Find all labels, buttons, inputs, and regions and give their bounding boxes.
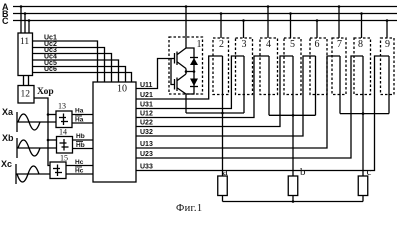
wire tap C to block 11: [28, 19, 31, 33]
svg-text:U31: U31: [140, 102, 153, 109]
wire switch 9 output lead: [388, 56, 390, 114]
wire load c bottom stub: [362, 196, 364, 202]
wire emitter-collector mid node: [185, 69, 188, 75]
wire switch 6 output lead: [315, 56, 317, 115]
wire Hb: [73, 133, 94, 140]
bus C (phase C input line): [2, 16, 397, 26]
wire tap A to switch 7: [338, 5, 341, 38]
source Xa (sine input a): [2, 107, 56, 132]
wire diode branch: [186, 48, 195, 94]
switch cell 1 dashed box: [169, 37, 203, 94]
wire Uc2: [33, 41, 105, 82]
load a resistor: [218, 166, 228, 196]
wire Uc4: [33, 54, 119, 83]
svg-text:6: 6: [315, 39, 320, 50]
svg-text:Uc6: Uc6: [44, 66, 57, 73]
svg-text:U22: U22: [140, 120, 153, 127]
wire U12 control to switch 4: [136, 56, 269, 118]
svg-text:a: a: [223, 166, 228, 178]
svg-text:Xb: Xb: [2, 133, 14, 143]
wire output node c collector: [340, 113, 389, 115]
wire Ha: [72, 108, 93, 115]
block 11 (voltage sensor unit): [18, 33, 33, 76]
svg-text:U33: U33: [140, 164, 153, 171]
svg-text:U23: U23: [140, 151, 153, 158]
wire tap A to switch 1: [185, 5, 188, 48]
wire gate bus of switch 1: [171, 59, 175, 85]
diode VD2: [190, 79, 198, 87]
wire switch 4 output lead: [268, 56, 270, 115]
svg-text:Hb: Hb: [76, 142, 85, 149]
load b resistor: [288, 166, 306, 196]
wire tap A to block 11: [20, 5, 23, 33]
comparator 13: [56, 102, 72, 128]
comparator 14: [57, 128, 73, 154]
wire U23 control to switch 8: [136, 56, 363, 158]
comparator 15: [50, 154, 68, 179]
load c resistor: [358, 166, 371, 196]
svg-text:1: 1: [197, 39, 202, 50]
switch cell 6 dashed box: [310, 38, 327, 95]
wire U13 control to switch 7: [136, 56, 340, 148]
switch cell 9 dashed box: [381, 38, 395, 95]
wire Ha-bar: [72, 116, 93, 124]
svg-text:Хор: Хор: [37, 87, 54, 97]
svg-text:U21: U21: [140, 92, 153, 99]
source Xc (sine input c): [1, 159, 50, 184]
wire tap A to switch 4: [267, 5, 270, 38]
wire Hb-bar: [73, 142, 94, 150]
wire load b bottom stub: [292, 196, 294, 202]
wire U22 control to switch 5: [136, 56, 293, 127]
wire switch 1 output lead: [185, 94, 187, 113]
wire block 11 to block 12 stub 2: [28, 76, 30, 86]
svg-text:11: 11: [20, 37, 29, 47]
wire tap C to switch 6: [316, 19, 319, 38]
wire switch 8 output to load c: [362, 56, 365, 176]
svg-text:U32: U32: [140, 129, 153, 136]
wire output node a collector: [186, 112, 244, 114]
svg-text:U11: U11: [140, 82, 153, 89]
svg-text:14: 14: [59, 128, 67, 137]
wire Uc1: [33, 35, 98, 83]
wire load a bottom stub: [222, 196, 224, 202]
wire U32 control to switch 6: [136, 56, 316, 136]
wire tap B to switch 5: [289, 12, 292, 38]
wire switch 5 output to load b: [292, 56, 295, 176]
diode VD1: [190, 58, 198, 66]
wire Xop distribution: [34, 98, 57, 166]
wire tap C to switch 9: [386, 19, 389, 38]
svg-text:Ha: Ha: [75, 108, 84, 115]
source Xb (sine input b): [2, 133, 57, 158]
wire Uc3: [33, 47, 112, 82]
wire switch 3 output lead: [243, 56, 245, 113]
transistor VT2 lower IGBT: [175, 74, 187, 94]
wire tap B to block 11: [24, 12, 27, 33]
svg-text:10: 10: [117, 84, 127, 95]
wire U21 control to switch 2: [136, 56, 223, 99]
switch cell 5 dashed box: [284, 38, 301, 95]
svg-text:Hb: Hb: [76, 133, 85, 140]
block 12 (reference signal generator): [18, 86, 34, 104]
wire tap B to switch 2: [220, 12, 223, 38]
svg-text:15: 15: [60, 154, 68, 163]
svg-text:U12: U12: [140, 111, 153, 118]
wire Uc6: [33, 66, 132, 82]
switch cell 7 dashed box: [332, 38, 346, 95]
svg-text:9: 9: [385, 39, 390, 50]
svg-text:2: 2: [219, 39, 224, 50]
svg-text:12: 12: [21, 90, 31, 100]
wire switch 7 output lead: [339, 56, 341, 114]
bus B (phase B input line): [2, 9, 397, 19]
wire tap B to switch 8: [360, 12, 363, 38]
switch cell 2 dashed box: [213, 38, 229, 95]
svg-text:С: С: [2, 16, 9, 26]
svg-text:Xa: Xa: [2, 107, 14, 117]
wire Uc5: [33, 60, 126, 82]
svg-text:Xc: Xc: [1, 159, 12, 169]
switch cell 8 dashed box: [354, 38, 371, 95]
svg-text:U13: U13: [140, 141, 153, 148]
wire U11 control to switch 1: [136, 59, 171, 90]
svg-text:4: 4: [266, 39, 271, 50]
transistor VT1 upper IGBT: [175, 48, 187, 69]
svg-text:3: 3: [242, 39, 247, 50]
wire neutral bottom: [223, 200, 364, 203]
svg-text:Hc: Hc: [75, 168, 84, 175]
svg-text:5: 5: [290, 39, 295, 50]
wire tap C to switch 3: [242, 19, 245, 38]
wire Hc-bar: [66, 167, 93, 175]
wire output node b collector: [269, 114, 316, 116]
switch cell 4 dashed box: [260, 38, 278, 95]
block 10 (control pulse former): [93, 82, 136, 182]
wire block 11 to block 12 stub 1: [23, 76, 25, 86]
svg-text:Hc: Hc: [75, 159, 84, 166]
switch cell 3 dashed box: [236, 38, 253, 95]
svg-text:b: b: [300, 166, 306, 178]
svg-text:8: 8: [358, 39, 363, 50]
svg-text:Ha: Ha: [75, 117, 84, 124]
svg-text:13: 13: [58, 102, 66, 111]
wire U33 control to switch 9: [136, 56, 389, 171]
bus A (phase A input line): [2, 2, 397, 12]
svg-text:7: 7: [337, 39, 342, 50]
svg-text:Фиг.1: Фиг.1: [176, 203, 202, 214]
svg-text:c: c: [367, 166, 372, 178]
wire U31 control to switch 3: [136, 56, 244, 109]
wire switch 2 output to load a: [221, 56, 224, 176]
wire Hc: [66, 159, 93, 166]
